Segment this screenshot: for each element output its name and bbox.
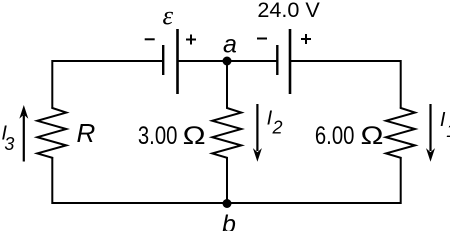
current arrow I1 shaft (down): [429, 104, 431, 151]
battery 24.0V short negative plate: [276, 45, 278, 75]
label 3.00 ohm omega: [183, 122, 206, 149]
resistor 6.00 ohm zigzag: [386, 108, 415, 159]
svg-text:a: a: [223, 31, 237, 59]
minus sign left battery: [145, 38, 155, 40]
svg-text:24.0 V: 24.0 V: [257, 0, 320, 22]
current arrow I2 head: [253, 148, 262, 162]
plus sign right battery: [301, 34, 311, 44]
wire top right horizontal and right upper vertical: [290, 61, 401, 108]
node a junction dot: [223, 57, 232, 66]
svg-text:b: b: [222, 211, 236, 232]
minus sign right battery: [257, 38, 267, 40]
svg-text:6.00: 6.00: [315, 122, 355, 150]
wire top middle horizontal: [178, 60, 277, 62]
svg-text:Ω: Ω: [361, 122, 384, 149]
wire top left horizontal and left upper vertical: [52, 61, 163, 108]
svg-text:I: I: [440, 109, 446, 131]
battery EMF symbol (epsilon) long positive plate: [176, 29, 179, 94]
svg-text:1: 1: [446, 121, 450, 141]
wire middle vertical lower: [226, 158, 228, 204]
svg-text:2: 2: [272, 117, 283, 137]
battery 24.0V long positive plate: [289, 29, 292, 94]
node b junction dot: [223, 199, 232, 208]
svg-text:ε: ε: [163, 0, 174, 30]
svg-text:3: 3: [4, 134, 14, 154]
current arrow I1 head: [426, 148, 435, 162]
current arrow I3 head: [19, 105, 28, 119]
svg-text:R: R: [77, 118, 96, 148]
resistor 3.00 ohm zigzag: [212, 108, 241, 159]
wire middle vertical upper: [226, 61, 228, 108]
svg-text:Ω: Ω: [183, 122, 206, 149]
current arrow I2 shaft (down): [256, 104, 258, 151]
plus sign left battery: [186, 35, 196, 45]
resistor R zigzag: [37, 108, 66, 159]
current arrow I3 shaft (up): [23, 115, 25, 162]
svg-text:3.00: 3.00: [138, 122, 178, 150]
wire bottom horizontal with left and right lower verticals: [52, 158, 400, 204]
battery EMF symbol (epsilon) short negative plate: [162, 45, 164, 75]
label 6.00 ohm omega: [361, 122, 384, 149]
